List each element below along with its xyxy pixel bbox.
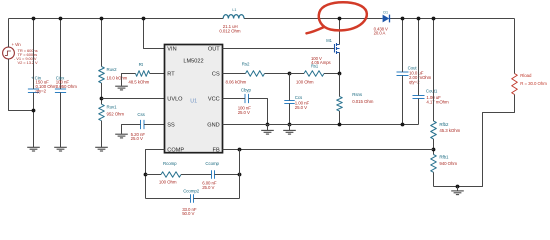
svg-text:25.0 V: 25.0 V	[295, 105, 307, 110]
node junction UVLO tap	[100, 97, 104, 101]
diode D1	[383, 15, 390, 23]
node junction Cin top	[32, 17, 36, 21]
node junction Cinx top	[59, 17, 63, 21]
resistor Rfb1	[431, 155, 437, 173]
svg-text:D1: D1	[383, 10, 388, 14]
wire M1 source lead	[339, 53, 341, 74]
svg-text:940 Ohm: 940 Ohm	[439, 161, 457, 166]
wire M1 drain lead	[339, 19, 341, 45]
svg-text:R = 30.0 Ohm: R = 30.0 Ohm	[520, 81, 547, 86]
node junction divider rail top	[432, 17, 436, 21]
wire COMP pin down	[146, 150, 165, 199]
resistor Rs1	[304, 71, 324, 77]
svg-text:Ccomp: Ccomp	[205, 161, 219, 166]
svg-text:Rload: Rload	[520, 73, 532, 78]
wire Css to ground stub	[122, 125, 141, 134]
node junction FB comp branch	[238, 148, 242, 152]
wire Cout leads	[402, 19, 404, 73]
wire GND pin rail	[223, 124, 419, 126]
wire Ccs leads	[289, 74, 291, 101]
svg-text:+ Vin: + Vin	[12, 42, 22, 47]
node junction Vin return on Cin branch	[32, 109, 36, 113]
node junction COMP branch	[144, 173, 148, 177]
svg-text:VIN: VIN	[167, 47, 176, 53]
wire Ccomp2 right	[194, 198, 240, 200]
svg-text:M1: M1	[326, 38, 332, 43]
svg-text:0.012 Ohm: 0.012 Ohm	[219, 28, 240, 33]
wire comp lower branch	[146, 198, 191, 200]
wire Cbyp to ground rail	[249, 99, 268, 125]
svg-text:V2 = 13.2 V: V2 = 13.2 V	[18, 60, 39, 65]
resistor Rs2	[246, 71, 265, 77]
svg-text:RT: RT	[167, 72, 175, 78]
wire UVLO tap to IC pin	[102, 98, 165, 100]
capacitor Cinx	[55, 88, 66, 90]
node junction Cbyp bottom	[266, 123, 270, 127]
svg-text:25.0 V: 25.0 V	[238, 110, 250, 115]
ground under Css	[115, 133, 128, 135]
wire FB pin line to divider	[223, 149, 434, 151]
ground under Cin	[27, 146, 40, 148]
wire SS pin to Css	[144, 124, 165, 126]
svg-text:50.0 V: 50.0 V	[182, 211, 194, 216]
node junction Cout top	[401, 17, 405, 21]
wire top input rail left section	[9, 18, 224, 20]
node junction Ccs bottom	[288, 123, 292, 127]
svg-text:Css: Css	[137, 112, 145, 117]
resistor Rcomp	[161, 172, 181, 177]
svg-text:952 Ohm: 952 Ohm	[107, 111, 125, 116]
wire RT pin to Rt	[150, 73, 165, 75]
ground under Cbyp	[267, 125, 269, 131]
wire Rload top lead	[514, 19, 516, 74]
svg-text:COMP: COMP	[167, 148, 184, 154]
resistor Rfb2	[431, 121, 437, 139]
node junction drain switch node	[338, 17, 342, 21]
ground under Ruv1	[95, 146, 108, 148]
wire VIN pin feed	[144, 19, 165, 49]
wire output divider branch top	[433, 19, 435, 122]
wire Vin top lead	[8, 19, 10, 48]
wire Rt to ground stub	[122, 74, 136, 86]
svg-text:8.06 kOhm: 8.06 kOhm	[226, 79, 247, 84]
capacitor Cin	[28, 88, 39, 90]
wire Rfb2 to FB node	[433, 139, 435, 155]
wire Rcomp to Ccomp	[181, 174, 212, 176]
svg-text:10.0 kOhm: 10.0 kOhm	[107, 76, 128, 81]
inductor L1	[223, 15, 244, 19]
svg-text:0.050 Ohm: 0.050 Ohm	[56, 84, 77, 89]
op-amp U1 LM5022 controller IC body	[165, 45, 223, 153]
svg-text:Rs2: Rs2	[242, 62, 250, 67]
node junction comp right	[238, 173, 242, 177]
resistor Rt	[136, 71, 150, 77]
svg-text:Rfb2: Rfb2	[439, 122, 449, 127]
wire Vin bottom lead and return to Cin	[9, 59, 34, 111]
resistor Rload	[512, 74, 518, 95]
wire top rail diode to right corner	[391, 18, 515, 20]
svg-text:100 Ohm: 100 Ohm	[296, 79, 314, 84]
node junction CS sense node	[338, 72, 342, 76]
wire top rail inductor to diode	[244, 18, 382, 20]
wire Ccs node to Rs1	[290, 73, 305, 75]
wire VCC pin to Cbyp	[223, 98, 246, 100]
svg-text:4.17 mOhm: 4.17 mOhm	[426, 99, 449, 104]
wire Cin branch	[33, 19, 35, 90]
svg-text:L1: L1	[232, 8, 236, 12]
capacitor Ccs	[284, 100, 294, 102]
node junction FB tap	[432, 148, 436, 152]
node junction Rsns bottom	[338, 123, 342, 127]
svg-text:Cbyp: Cbyp	[241, 87, 252, 92]
wire Rfb1 to bottom rail	[433, 172, 435, 186]
resistor Rsns	[337, 97, 343, 112]
svg-text:25.0 V: 25.0 V	[202, 185, 214, 190]
svg-text:U1: U1	[190, 98, 197, 104]
svg-text:100 Ohm: 100 Ohm	[159, 179, 177, 184]
ground under Cinx	[54, 146, 67, 148]
annotation red circle	[319, 2, 367, 30]
svg-text:Cout1: Cout1	[426, 88, 438, 93]
svg-text:Rfb1: Rfb1	[439, 154, 449, 159]
wire FB column down	[239, 150, 241, 199]
svg-text:CS: CS	[212, 72, 220, 78]
svg-text:qty=2: qty=2	[36, 88, 47, 93]
svg-text:LM5022: LM5022	[183, 58, 203, 64]
wire output bottom rail	[434, 95, 515, 187]
wire Cout1 leads	[418, 19, 420, 96]
svg-text:45.3 kOhm: 45.3 kOhm	[439, 128, 460, 133]
wire Ccomp to FB column	[215, 174, 240, 176]
node junction Cout1 top	[417, 17, 421, 21]
wire Cinx branch	[60, 19, 62, 90]
wire UVLO divider branch	[101, 19, 103, 67]
capacitor Ccomp2	[190, 194, 192, 203]
wire Ruv1 to ground	[101, 121, 103, 147]
node junction output ground	[456, 185, 460, 189]
ground under Rt	[115, 85, 128, 87]
svg-text:Ccomp2: Ccomp2	[183, 189, 200, 194]
capacitor Ccomp	[211, 170, 213, 179]
wire Rs2 to Ccs node	[265, 73, 290, 75]
svg-text:UVLO: UVLO	[167, 97, 183, 103]
node junction VIN feed top	[142, 17, 146, 21]
capacitor Cout	[397, 71, 409, 73]
svg-text:48.5 kOhm: 48.5 kOhm	[128, 79, 149, 84]
svg-text:FB: FB	[213, 148, 220, 154]
resistor Ruv1	[99, 104, 105, 121]
svg-text:25.0 V: 25.0 V	[131, 136, 143, 141]
svg-text:SS: SS	[167, 123, 175, 129]
transistor M1 NMOS	[334, 44, 336, 53]
svg-text:Rs1: Rs1	[311, 64, 319, 69]
svg-text:Ruv2: Ruv2	[107, 67, 118, 72]
svg-text:20.0 A: 20.0 A	[374, 31, 386, 36]
wire comp upper branch left	[146, 174, 162, 176]
capacitor Css	[140, 120, 142, 129]
capacitor Cbyp	[244, 94, 246, 103]
node junction Cout bottom	[401, 123, 405, 127]
svg-text:VCC: VCC	[208, 97, 220, 103]
ground under Ccs	[289, 125, 291, 131]
node junction Ccs tap	[288, 72, 292, 76]
node junction divider top	[100, 17, 104, 21]
wire OUT pin to gate of M1	[223, 48, 335, 50]
svg-text:Rcomp: Rcomp	[163, 161, 177, 166]
voltage source Vin	[3, 47, 15, 59]
svg-text:GND: GND	[207, 123, 219, 129]
svg-text:OUT: OUT	[208, 47, 220, 53]
annotation red tail stroke	[307, 27, 325, 33]
ground output	[457, 187, 459, 191]
wire CS pin to Rs2	[223, 73, 246, 75]
resistor Ruv2	[99, 67, 105, 84]
svg-text:0.015 Ohm: 0.015 Ohm	[352, 99, 373, 104]
svg-text:Rsns: Rsns	[352, 92, 363, 97]
wire Rs1 to M1 source	[324, 73, 340, 75]
wire Rsns leads	[339, 74, 341, 97]
capacitor Cout1	[413, 95, 425, 97]
svg-text:Ccs: Ccs	[295, 95, 303, 100]
svg-text:Ruv1: Ruv1	[107, 104, 118, 109]
